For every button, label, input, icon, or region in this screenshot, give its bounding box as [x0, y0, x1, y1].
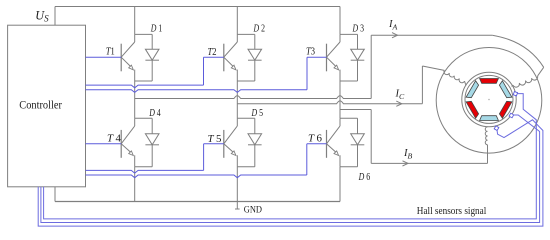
svg-text:D 5: D 5	[251, 108, 263, 119]
winding phase A to rotor	[512, 85, 514, 86]
hall wire 2	[41, 115, 540, 223]
hall wire 1	[44, 94, 537, 219]
wire phase node leg2	[236, 81, 238, 118]
svg-text:Hall sensors signal: Hall sensors signal	[417, 206, 487, 217]
svg-text:D 4: D 4	[148, 108, 160, 119]
gate wire T3	[86, 57, 327, 92]
svg-text:T 6: T 6	[308, 134, 322, 145]
svg-text:D 3: D 3	[352, 24, 364, 35]
transistor T3	[327, 34, 341, 81]
winding phase B lead	[487, 145, 489, 164]
wire +bus top rail	[55, 6, 340, 8]
wire phase B tap from leg3	[340, 109, 371, 111]
magnet N lower-left	[466, 101, 479, 118]
winding phase A lead	[538, 67, 544, 76]
wire from controller top to +bus	[54, 7, 56, 26]
wire leg1 from +bus to T1	[134, 7, 136, 35]
ground stub	[236, 202, 238, 210]
svg-text:T2: T2	[208, 47, 217, 58]
gate wire T6	[86, 144, 327, 178]
winding phase B coil	[485, 127, 487, 145]
svg-text:D 2: D 2	[253, 24, 265, 35]
magnet S bottom	[480, 116, 499, 121]
winding phase A coil	[513, 76, 538, 87]
ground tick	[235, 208, 240, 210]
gate wire T4	[86, 143, 122, 145]
wire phase C riser	[421, 66, 423, 104]
motor stator circle	[436, 48, 542, 154]
magnet N lower-right	[499, 101, 512, 118]
wire phase A from leg1 to riser	[135, 96, 372, 99]
wire T4 emitter to -bus	[134, 167, 136, 202]
wire -bus drop from controller	[54, 187, 56, 202]
motor rotor outer circle	[462, 72, 516, 126]
magnet N top	[480, 79, 499, 84]
transistor T6	[327, 118, 341, 167]
hall wire 3	[38, 120, 543, 226]
diode D2	[237, 34, 261, 81]
gate wire T1	[86, 56, 122, 58]
wire T5 emitter to -bus	[236, 167, 238, 202]
rotor center mark	[488, 99, 490, 101]
winding phase C to rotor	[465, 81, 467, 85]
magnet S upper-right	[499, 81, 512, 98]
magnet S upper-left	[466, 81, 479, 98]
wire -bus rail	[55, 201, 340, 203]
diode D6	[340, 118, 364, 167]
motor rotor inner circle	[465, 75, 513, 123]
arrow I_A	[392, 33, 398, 38]
wire phase A to motor	[371, 34, 492, 36]
svg-text:T3: T3	[306, 47, 315, 58]
svg-text:T1: T1	[106, 47, 115, 58]
winding phase C lead	[422, 66, 444, 70]
wire phase A lead curve into motor	[492, 35, 543, 67]
wire phase node leg3	[339, 81, 341, 118]
winding phase C coil	[444, 70, 465, 82]
wire leg3 from +bus to T3 (bus corner)	[339, 7, 341, 35]
diode D4	[135, 118, 159, 167]
wire phase B to motor	[371, 162, 487, 164]
wire phase A riser	[370, 35, 372, 98]
svg-text:D 1: D 1	[150, 24, 162, 35]
hall sensor H1	[513, 92, 517, 96]
arrow I_B	[403, 161, 409, 166]
svg-text:T 5: T 5	[208, 134, 222, 145]
hall sensor H3	[494, 126, 499, 131]
gate wire T5	[86, 144, 224, 173]
arrow I_C	[396, 101, 402, 106]
diode D1	[135, 34, 159, 81]
wire leg2 from +bus to T2	[236, 7, 238, 35]
svg-text:GND: GND	[244, 206, 262, 216]
controller block	[8, 25, 86, 187]
wire phase C from leg2 to riser	[237, 101, 422, 104]
wire T6 emitter to -bus	[339, 167, 341, 202]
svg-text:D 6: D 6	[358, 172, 370, 183]
diode D3	[340, 34, 364, 81]
gate wire T2	[86, 57, 224, 88]
svg-text:T 4: T 4	[107, 134, 121, 145]
transistor T1	[121, 34, 135, 81]
transistor T4	[121, 118, 135, 167]
transistor T2	[224, 34, 238, 81]
hall sensor H2	[509, 113, 514, 118]
diode D5	[237, 118, 261, 167]
transistor T5	[224, 118, 238, 167]
wire phase node leg1	[134, 81, 136, 118]
svg-text:Controller: Controller	[19, 98, 62, 112]
wire phase B riser	[370, 110, 372, 164]
